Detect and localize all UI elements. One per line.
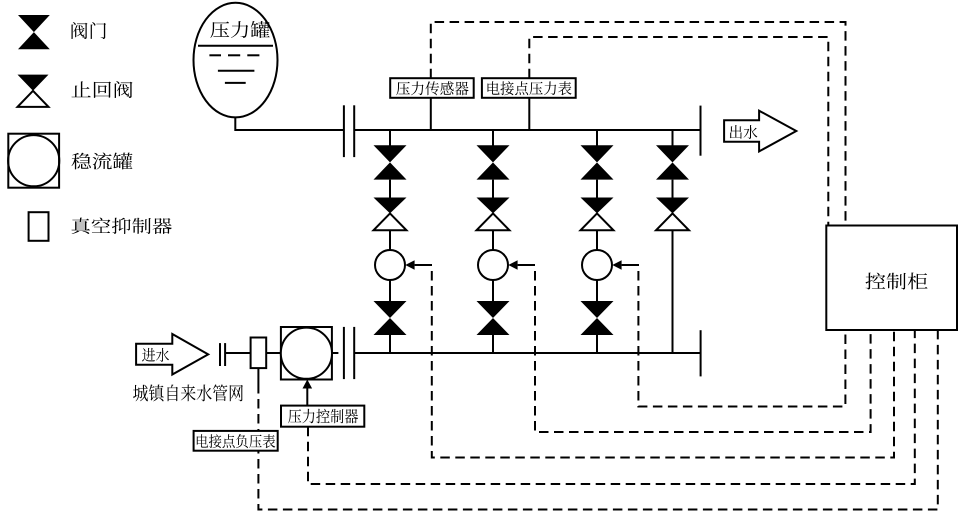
legend valve label 阀门: [72, 22, 107, 39]
legend check valve label 止回阀: [72, 81, 133, 98]
valve V4a (branch 4 top): [656, 145, 689, 179]
pipe: top manifold right section: [354, 129, 700, 131]
vacuum suppressor on inlet: [251, 338, 267, 369]
pump P3: [582, 250, 612, 280]
pipe: branch 1 above pump: [389, 230, 391, 250]
union on inlet pipe: [220, 343, 225, 366]
legend check valve symbol: [18, 75, 49, 107]
legend vacuum suppressor label 真空抑制器: [72, 218, 172, 235]
legend valve symbol: [18, 15, 50, 49]
pipe: surge tank outlet: [332, 352, 339, 354]
union on bottom manifold: [344, 327, 354, 379]
pump P2 control arrow: [508, 260, 535, 270]
pipe: branch 4 bypass down: [672, 230, 674, 353]
wire: pressure sensor to control cabinet (dashed): [431, 22, 846, 226]
wire: pump 1 to control cabinet (dashed): [432, 271, 894, 458]
pipe: pressure tank outlet: [234, 117, 236, 131]
label text 压力控制器: [288, 409, 358, 424]
label box 电接点负压表 (contact vacuum gauge): [194, 431, 278, 451]
pipe: branch 1 connector: [389, 180, 391, 199]
pipe: branch 2 upper stub: [492, 130, 494, 146]
pipe: branch 3 lower stub: [596, 335, 598, 353]
wire: vacuum gauge to control cabinet (dashed): [258, 330, 937, 510]
label text 电接点压力表: [488, 81, 572, 95]
pressure tank water level: [198, 46, 273, 83]
pipe: branch 4 upper stub: [672, 130, 674, 146]
surge tank (稳流罐): [281, 327, 332, 380]
pressure controller sense arrow at surge tank: [303, 380, 313, 406]
valve V1a (branch 1 top): [374, 145, 407, 179]
wire: pump 3 to control cabinet (dashed): [638, 271, 845, 407]
pipe: branch 2 lower stub: [492, 335, 494, 353]
pipe: branch 3 below pump: [596, 280, 598, 302]
label box 压力传感器 (pressure sensor): [390, 78, 474, 98]
pipe: branch 3 upper stub: [596, 130, 598, 146]
wire: contact pressure gauge to control cabinet (dashed): [529, 37, 828, 226]
pipe: branch 4 connector: [672, 180, 674, 199]
top manifold end cap: [700, 106, 702, 156]
valve V1b (branch 1 bottom): [374, 301, 407, 335]
pipe: bottom manifold: [354, 352, 700, 354]
label box 电接点压力表 (contact pressure gauge): [482, 78, 576, 98]
legend surge tank symbol: [8, 134, 59, 188]
leader line: pressure sensor: [430, 98, 432, 130]
pipe: inlet to vacuum suppressor: [225, 352, 251, 354]
caption 城镇自来水管网 (city water network): [133, 384, 243, 401]
valve V3b (branch 3 bottom): [581, 301, 614, 335]
inlet arrow 进水: [136, 334, 208, 375]
control cabinet 控制柜: [826, 226, 957, 331]
valve V2b (branch 2 bottom): [477, 301, 510, 335]
pipe: branch 2 above pump: [492, 230, 494, 250]
pipe: branch 1 below pump: [389, 280, 391, 302]
pump P1 control arrow: [405, 260, 432, 270]
check valve CV4 (branch 4): [656, 198, 689, 231]
wire: vacuum gauge solid stub: [257, 368, 259, 384]
cabinet label 控制柜: [866, 273, 928, 290]
label text 压力传感器: [396, 81, 468, 95]
union on top manifold: [344, 105, 354, 157]
bottom manifold end cap: [700, 330, 702, 376]
pump P1: [375, 250, 405, 280]
leader line: contact pressure gauge: [528, 98, 530, 130]
pressure tank label 压力罐: [210, 21, 269, 38]
legend surge tank label 稳流罐: [72, 153, 133, 170]
wire: pump 2 to control cabinet (dashed): [535, 271, 871, 432]
pipe: branch 2 connector: [492, 180, 494, 199]
pipe: branch 2 below pump: [492, 280, 494, 302]
wire: pressure controller to control cabinet (dashed): [308, 330, 915, 484]
pipe: branch 3 connector: [596, 180, 598, 199]
legend vacuum suppressor symbol: [29, 212, 49, 241]
label text 电接点负压表: [197, 434, 275, 448]
inlet arrow label 进水: [142, 348, 169, 362]
pipe: top manifold: [235, 129, 344, 131]
pipe: branch 1 upper stub: [389, 130, 391, 146]
outlet arrow label 出水: [730, 125, 758, 139]
valve V2a (branch 2 top): [477, 145, 510, 179]
valve V3a (branch 3 top): [581, 145, 614, 179]
pipe: vacuum suppressor to surge tank: [266, 352, 281, 354]
outlet arrow 出水: [724, 111, 796, 152]
pipe: branch 3 above pump: [596, 230, 598, 250]
check valve CV3 (branch 3): [581, 198, 614, 231]
label box 压力控制器 (pressure controller): [281, 406, 364, 427]
pipe: branch 1 lower stub: [389, 335, 391, 353]
pump P2: [478, 250, 508, 280]
check valve CV1 (branch 1): [374, 198, 407, 231]
pump P3 control arrow: [612, 260, 639, 270]
check valve CV2 (branch 2): [477, 198, 510, 231]
pressure tank: [194, 3, 278, 118]
